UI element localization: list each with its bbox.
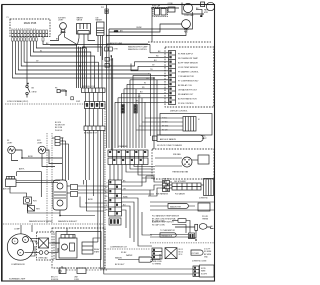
inline heater assembly box [172,183,201,190]
svg-text:P3 ICE CONTROL: P3 ICE CONTROL [178,103,194,105]
compressor feed wires [21,225,32,234]
FZR light bulb [38,146,46,154]
harness wires [150,202,214,210]
ice maker head box [97,22,105,36]
bottom right small text [150,261,207,266]
svg-text:LIGHT: LIGHT [37,142,43,144]
section divider dashed vertical [46,133,48,224]
evap fan motor [182,20,191,29]
svg-text:BK 10: BK 10 [179,252,183,254]
mid connector strip 2 [85,102,106,109]
connector pin labels right side [178,53,199,105]
svg-text:BK RD BU GY W: BK RD BU GY W [82,86,95,88]
FF light bulb [8,146,16,154]
svg-text:BK/W TO LAMP: BK/W TO LAMP [110,42,123,45]
svg-text:P10 SANDWICH TEMP SENSOR: P10 SANDWICH TEMP SENSOR [152,215,180,218]
wires right of lower connector [122,176,155,228]
svg-text:OVERLOAD: OVERLOAD [38,257,48,260]
svg-text:OR/W: OR/W [61,90,66,92]
heavy neutral wire pair [111,56,112,150]
air loop wire [17,172,42,197]
freezer light switch [26,84,30,98]
display box [160,114,212,136]
svg-text:GY FF TEMP SENSOR: GY FF TEMP SENSOR [178,67,198,69]
low voltage dashed separator [5,103,103,105]
svg-text:BU FF TEMP SENSOR: BU FF TEMP SENSOR [178,62,198,64]
svg-text:W 14: W 14 [179,254,183,256]
svg-text:BK/W: BK/W [88,199,93,201]
svg-text:RD THERM FZR TEMP: RD THERM FZR TEMP [178,58,199,60]
svg-text:W/BK: W/BK [123,196,128,198]
lower connector bottom blob [109,218,121,225]
bottom right component row: terminal box [152,248,162,259]
plug connector [193,266,199,277]
svg-text:SANDWICH SUB HOT: SANDWICH SUB HOT [58,220,78,223]
vertical dashed divider center [104,104,106,268]
compressor circle [7,234,33,260]
right text col [204,249,212,259]
wires below strip2 [86,109,103,127]
svg-text:BK/W: BK/W [28,156,33,158]
fan motor circle [182,157,192,167]
ground symbol bottom [58,269,62,273]
evap motor box [204,179,214,196]
svg-text:SANDW: SANDW [115,257,122,260]
bus corner extras [82,47,157,135]
svg-text:P5 PWR SUPPLY: P5 PWR SUPPLY [178,53,194,55]
dashed separator top right [148,41,211,43]
svg-text:W HOLD: W HOLD [55,130,63,132]
condenser fan motor circle [182,3,204,15]
fan box wires [155,158,198,166]
bottom small box 1 [59,268,66,274]
dashed line [105,248,150,250]
mid text rows [179,249,184,256]
svg-text:SCHEMATIC REF: SCHEMATIC REF [9,277,26,280]
svg-text:AM 100 F SANDW: AM 100 F SANDW [160,138,176,141]
small box right [198,155,209,164]
svg-text:TO THERM: TO THERM [152,263,161,265]
serial plate text [201,268,208,276]
connector P1 pin row 3 [12,38,45,41]
svg-text:MAIN PCB: MAIN PCB [24,21,37,25]
svg-text:4 WIRE RD: 4 WIRE RD [199,198,209,200]
svg-text:LOW VOLTAGE (VDC): LOW VOLTAGE (VDC) [7,100,28,103]
svg-text:VALVE: VALVE [77,19,83,22]
svg-text:RD 12: RD 12 [179,249,184,251]
text block left middle [55,122,65,132]
freezer thermostat [24,197,32,204]
main PCB dashed box P1 [10,19,50,37]
wires between strips [86,93,103,102]
serial plate box [200,265,215,277]
svg-text:START: START [94,251,99,254]
harness feed wires [146,176,163,196]
inline pill [168,204,188,209]
damper outline [53,180,67,210]
pin fills [109,151,146,161]
ice maker wires down [98,36,103,61]
defrost limiter [28,206,35,212]
svg-text:SCOPE: SCOPE [201,273,208,275]
svg-text:SOURCE: SOURCE [51,279,59,281]
icemaker connector strip [108,150,148,165]
dashed separator above components [150,242,214,244]
connector pin strip [169,51,176,105]
mid connector strip 3 [84,126,105,130]
display box inner text [162,118,169,132]
svg-text:RD CAP CONN: RD CAP CONN [152,224,165,227]
svg-text:SANDWICH CONTROL: SANDWICH CONTROL [128,48,147,51]
strip2 pin contacts [86,103,103,107]
labels near lower connector [123,180,128,206]
lamp feed wires [52,138,69,180]
svg-text:W: W [40,50,42,52]
air distribution box [6,176,17,186]
bottom right text rows [152,215,180,224]
overload circles [39,251,48,255]
bottom middle dashed box [52,228,105,268]
start relay dashed box [37,232,55,260]
run capacitor [153,7,168,16]
svg-text:W: W [144,83,146,85]
lower connector left labels [105,182,108,211]
svg-text:AIR FL: AIR FL [19,168,25,171]
fan dashed box [152,149,214,179]
ptc box [59,235,77,259]
svg-text:DEF HTR ASSY: DEF HTR ASSY [174,180,187,183]
vertical feed line [107,5,110,45]
wires bottom center [101,234,194,274]
relay wires [25,239,61,257]
wires into cap blob [150,221,190,238]
right component [198,203,210,211]
relay box [39,238,49,248]
middle vertical wire bundle [50,45,84,89]
svg-text:P1: P1 [7,17,9,19]
lamp feed connector [55,137,60,146]
connector blob 1 [121,105,124,114]
connector P1 pin row 2 [12,34,48,37]
cap conn text [152,220,175,233]
svg-text:LIGHT: LIGHT [58,20,64,22]
svg-text:TO THERMISTOR: TO THERMISTOR [160,230,175,232]
svg-text:123456789012: 123456789012 [12,28,38,30]
staircase continuation wires [130,212,152,246]
connector blob 2 [134,105,137,114]
svg-text:OR/W: OR/W [32,92,37,94]
svg-text:P10 SANDW: P10 SANDW [175,193,185,196]
svg-text:SANDW HTR: SANDW HTR [170,205,182,208]
inline fuse [178,219,186,223]
dashed divider [3,223,103,225]
water valve box [77,24,91,35]
left border heavy edge [1,5,3,282]
svg-text:NO VDCR CONN P11 SANDW: NO VDCR CONN P11 SANDW [157,144,182,147]
thermistor bulb [175,224,214,238]
svg-text:THERM: THERM [202,218,209,220]
lower connector strip [109,180,122,216]
wires into connector from left [115,53,169,103]
svg-text:RD BU: RD BU [121,252,127,254]
svg-text:COMP: COMP [14,229,20,231]
svg-text:4 WIRE RD CONN: 4 WIRE RD CONN [192,261,207,263]
wires from P1 descending and turning right [13,41,155,149]
harness pin block [163,181,170,192]
damper wires [60,180,108,216]
svg-text:LIGHT: LIGHT [7,142,13,144]
svg-text:CORD: CORD [74,279,80,281]
svg-text:OR MAUVE HTR OUT: OR MAUVE HTR OUT [178,88,198,91]
svg-text:BK CAP CONN: BK CAP CONN [152,220,165,223]
svg-text:P7 COMPRESSOR RLY: P7 COMPRESSOR RLY [178,80,199,82]
display wires [136,118,183,130]
svg-text:ICEMAKER: ICEMAKER [118,145,128,148]
svg-text:Y FF FAN MOTOR: Y FF FAN MOTOR [178,75,194,78]
svg-text:BART: BART [202,137,206,140]
svg-text:P12: P12 [101,7,104,9]
condenser fan terminal box [168,7,175,12]
defrost thermostat component [165,248,177,259]
svg-text:P8: P8 [55,88,57,90]
svg-text:WATER: WATER [126,254,133,257]
connector P1 pin row 1 [12,30,48,33]
ice maker light bulb [60,23,67,33]
svg-text:DISPLAY CONTROL: DISPLAY CONTROL [170,110,188,113]
lower connector pin fills [109,181,118,215]
svg-text:RD HEATER OUT: RD HEATER OUT [178,93,194,96]
wires below strip3 [86,130,104,242]
ckt breaker pill [191,250,203,255]
lower cap connector blob [189,233,195,239]
svg-text:COMPRESSOR: COMPRESSOR [11,264,25,266]
pill component [153,135,204,141]
aux component [82,242,93,254]
motor wires heading left [107,8,203,44]
bottom small box 2 [77,268,86,274]
svg-text:P9 DAMPER CONTROL: P9 DAMPER CONTROL [178,70,199,73]
water valve secondary [139,257,153,262]
svg-text:COND: COND [168,3,174,5]
svg-text:M: M [24,240,26,242]
svg-text:THERMOSTAT FAN: THERMOSTAT FAN [172,171,189,174]
left small box above dashed line [57,90,66,97]
section divider dashed vertical 2 [51,133,53,224]
wires down from middle columns [52,228,101,243]
water valve wires [78,34,96,47]
bulb wires [50,33,77,44]
wire labels left of connector [136,51,161,102]
right motor circle [201,2,215,11]
svg-text:FRE FAN: FRE FAN [173,153,181,156]
svg-text:SANDWICH/JUICE WATER: SANDWICH/JUICE WATER [29,220,53,223]
wires below icemaker connector [110,165,155,181]
thermistor pill [160,233,176,237]
svg-text:FZR HARNESS: FZR HARNESS [156,193,169,196]
svg-text:OR/BK: OR/BK [136,27,142,29]
lamp wires [12,150,63,167]
connector outline [165,47,214,107]
svg-text:COMPRESSOR CKT: COMPRESSOR CKT [110,247,128,249]
svg-text:CKT BKR: CKT BKR [192,253,200,255]
connector pin contacts [169,52,171,104]
svg-text:BU FZR FAN MOTOR: BU FZR FAN MOTOR [178,97,197,100]
border frame [2,5,215,282]
svg-text:BK RELAY COIL: BK RELAY COIL [178,84,192,87]
bottom dashed feed wires [62,266,107,270]
wires below thermostat [28,204,61,213]
mid feed pins [105,47,113,67]
svg-text:BK W GD/Y: BK W GD/Y [115,264,125,266]
junction [200,15,202,17]
svg-text:MTR: MTR [204,12,209,14]
svg-text:BU RD BK W GY: BU RD BK W GY [84,133,98,135]
damper terminal boxes [71,185,78,197]
svg-text:MAKER: MAKER [96,19,103,22]
svg-text:RELAY: RELAY [94,248,100,251]
air dist wires [10,181,60,198]
heater assembly wires [170,182,204,188]
mid connector strip 1 [82,88,106,93]
